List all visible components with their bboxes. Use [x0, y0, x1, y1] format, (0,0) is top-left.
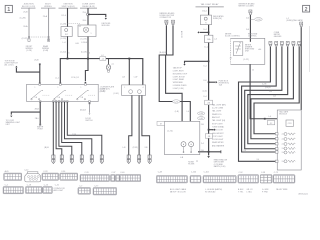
svg-text:WIRING: WIRING — [44, 6, 52, 8]
bundle wire 4 — [62, 102, 82, 156]
bundle wire 6 — [67, 102, 102, 156]
label (B-0)2-B — [159, 52, 167, 54]
svg-text:CONNECTOR: CONNECTOR — [160, 17, 172, 19]
svg-text:C-58: C-58 — [261, 172, 265, 174]
legend C-41 note — [54, 185, 66, 192]
svg-text:REAR WIPER: REAR WIPER — [212, 141, 224, 144]
svg-text:FUSE [14]: FUSE [14] — [213, 18, 222, 20]
svg-text:STOP LIGHT: STOP LIGHT — [212, 136, 224, 138]
svg-text:C-4: C-4 — [5, 185, 8, 187]
label D-4b — [204, 96, 207, 98]
wire from box to earth pin — [39, 102, 41, 124]
legend C-18 — [26, 185, 43, 194]
svg-text:(C-58): (C-58) — [81, 52, 87, 54]
svg-text:C-30: C-30 — [61, 171, 65, 173]
svg-text:25-B: 25-B — [23, 11, 28, 13]
label 29-A — [43, 15, 48, 18]
svg-text:HIGH MOUNT: HIGH MOUNT — [212, 133, 224, 135]
label A meter out — [252, 69, 254, 72]
page edge faint line — [309, 26, 311, 72]
module pin 6 — [275, 160, 278, 162]
module lamp 3 — [282, 143, 296, 146]
label g — [296, 44, 297, 46]
svg-text:ROOM LIGHT: ROOM LIGHT — [212, 139, 224, 141]
svg-text:(B-0)-B: (B-0)-B — [80, 110, 87, 112]
label C-74 in wiper box — [167, 131, 173, 133]
cascade wire 2 — [242, 47, 278, 153]
switch box exit nubs — [39, 101, 41, 103]
interconnect dashed wire — [28, 36, 49, 38]
svg-text:(C-48): (C-48) — [43, 50, 49, 52]
label D1-4 — [62, 15, 67, 17]
svg-text:(C-74): (C-74) — [167, 131, 173, 133]
branch left at 32.4 — [197, 31, 209, 33]
connector label column A — [21, 4, 36, 9]
connector block text under W2 — [42, 45, 50, 52]
svg-text:C-7: C-7 — [79, 186, 82, 188]
svg-text:REAR FOG: REAR FOG — [212, 113, 222, 116]
rear wiper motor box — [165, 121, 200, 154]
branch wire to right arrow — [88, 14, 106, 17]
svg-text:(C-40): (C-40) — [100, 91, 105, 93]
svg-text:(C-37): (C-37) — [81, 38, 87, 40]
bundle wire 3 — [59, 102, 72, 156]
svg-text:C-48: C-48 — [158, 172, 162, 174]
svg-text:1: 1 — [81, 87, 82, 89]
svg-text:L: BLU: L: BLU — [247, 192, 253, 194]
label D6-4 — [202, 11, 207, 13]
oval label C-82 — [198, 117, 205, 120]
bus label J-2 box — [100, 57, 106, 61]
destination list column — [212, 103, 226, 147]
trunk junction arrow right at 129.7 — [208, 129, 216, 131]
svg-text:D-6: D-6 — [246, 29, 249, 31]
svg-text:WIPER AND: WIPER AND — [173, 81, 184, 84]
svg-text:2-4: 2-4 — [201, 143, 204, 145]
cascade wire 3 — [245, 47, 282, 149]
legend C-52 — [238, 172, 259, 183]
label C-75 oval — [172, 100, 180, 104]
svg-text:GAUGES: GAUGES — [274, 35, 282, 38]
svg-text:C-22: C-22 — [24, 169, 28, 171]
legend C-30 — [60, 171, 78, 180]
svg-text:C-75: C-75 — [274, 172, 278, 174]
legend code text 6 — [276, 189, 288, 191]
washer out wire mid — [138, 95, 140, 155]
svg-text:2-4: 2-4 — [257, 159, 260, 161]
tail wires down — [159, 25, 190, 121]
tail light connector text — [160, 12, 176, 19]
legend C-75 — [273, 172, 295, 183]
wire bus to washer left pin — [128, 59, 130, 85]
label C-90 oval tap — [250, 18, 262, 22]
legend C-4 — [3, 185, 23, 194]
svg-text:(C-28): (C-28) — [60, 38, 66, 40]
meter pin 4 — [286, 42, 289, 46]
svg-text:D-4: D-4 — [246, 18, 249, 20]
svg-text:POINT: POINT — [37, 128, 43, 130]
label C-28 below relay — [60, 38, 66, 40]
L-2 wire — [300, 27, 302, 110]
svg-text:1: 1 — [35, 87, 36, 89]
bundle terminal pin 6 — [100, 155, 103, 164]
branch destination text — [102, 23, 111, 27]
meter pin 5 — [292, 42, 295, 46]
comb meter box — [230, 38, 265, 64]
bus wire horizontal — [60, 59, 143, 85]
legend code text 4 — [247, 189, 254, 193]
meter pin 6 — [298, 42, 301, 46]
meter header text 1 — [225, 34, 240, 38]
switch box labels right — [100, 89, 106, 94]
washer out wire left — [129, 95, 132, 155]
branch left arrow — [11, 112, 40, 115]
feed pin — [249, 10, 252, 14]
label C-28 dashed tap — [60, 23, 81, 28]
washer pin labels — [123, 147, 149, 149]
svg-text:A92X-04-11: A92X-04-11 — [299, 193, 308, 196]
oval label C-80 — [198, 112, 205, 115]
label B-1 left of bus corner — [56, 77, 59, 79]
switch box entry nubs — [39, 84, 41, 86]
rear washer box — [122, 85, 146, 96]
legend C-37 — [111, 172, 120, 182]
label 25-B mid — [34, 59, 39, 61]
svg-text:(B-0)2-B: (B-0)2-B — [159, 52, 167, 54]
label D-4 — [203, 29, 207, 31]
label L-W washer right — [134, 77, 138, 79]
tail pin A — [165, 20, 168, 24]
svg-text:AND WASHER: AND WASHER — [212, 144, 225, 147]
svg-text:C-77: C-77 — [94, 186, 98, 188]
svg-text:AND LIGHT: AND LIGHT — [54, 189, 64, 192]
svg-text:TAIL LIGHT [RH]: TAIL LIGHT [RH] — [212, 103, 226, 106]
legend C-74 — [78, 186, 91, 195]
label L-4 — [63, 42, 67, 44]
wiper box side label box — [157, 121, 165, 125]
legend C-40 — [120, 172, 141, 182]
pin line right of box — [89, 102, 91, 114]
svg-text:MODULE: MODULE — [279, 114, 287, 116]
trunk branch arrow at 61.3 — [183, 60, 209, 65]
dome light unit box — [78, 25, 96, 37]
svg-text:(2-4) B: (2-4) B — [265, 87, 271, 89]
cascade labels — [262, 83, 277, 97]
legend C-23 — [43, 185, 52, 194]
label (2-4) — [203, 90, 207, 92]
svg-text:BACK-UP: BACK-UP — [212, 116, 221, 119]
svg-text:C-80: C-80 — [199, 113, 203, 115]
svg-text:STOP LIGHT: STOP LIGHT — [212, 123, 224, 125]
svg-text:b: b — [69, 52, 70, 54]
label L-4 meter line — [269, 116, 272, 118]
svg-text:LIGHT (C-80): LIGHT (C-80) — [173, 88, 184, 90]
svg-text:1: 1 — [58, 87, 59, 89]
legend C-48 — [156, 172, 187, 183]
svg-text:MODULE: MODULE — [102, 25, 111, 27]
bundle terminal pin 1 — [52, 155, 55, 164]
svg-text:C-75: C-75 — [174, 101, 178, 103]
W2 end pin — [48, 39, 50, 41]
svg-text:(B1 LOCK): (B1 LOCK) — [5, 64, 14, 66]
tail gate module box — [277, 110, 301, 170]
washer pins — [127, 155, 130, 164]
svg-text:D-4: D-4 — [204, 66, 207, 68]
legend code text 3 — [238, 189, 244, 193]
label D-6 feed — [246, 29, 249, 31]
svg-text:2-B: 2-B — [35, 97, 37, 99]
module header — [279, 111, 289, 116]
W1 end pin — [28, 39, 30, 41]
pin line text — [85, 118, 93, 122]
svg-text:J-4: J-4 — [214, 38, 217, 40]
svg-text:LIGHT, ROOM: LIGHT, ROOM — [173, 76, 185, 78]
wire column C upper — [67, 8, 69, 27]
svg-text:TAIL LIGHT: TAIL LIGHT — [212, 110, 222, 113]
connector label column D — [80, 4, 97, 9]
svg-text:(C-28): (C-28) — [20, 18, 26, 20]
svg-text:(2-B): (2-B) — [72, 134, 77, 136]
module inner box — [286, 120, 294, 126]
svg-text:(L-1: (L-1 — [56, 77, 59, 79]
svg-text:TAIL LIGHT [LH]: TAIL LIGHT [LH] — [212, 119, 226, 122]
top room light text — [5, 60, 19, 66]
J/B box on trunk — [205, 100, 213, 105]
svg-text:METER COLUMN: METER COLUMN — [239, 6, 255, 8]
legend C-77 — [93, 186, 117, 195]
svg-text:C-52: C-52 — [239, 172, 243, 174]
door switch symbol 3 — [77, 90, 96, 100]
trunk wire relay to fuse — [208, 25, 210, 36]
label 26-A — [23, 25, 28, 28]
destinations text block — [173, 67, 188, 90]
wire W-mid — [39, 63, 41, 82]
meter out wire — [250, 64, 277, 118]
door switch symbol 1 — [31, 90, 50, 100]
svg-text:C-100: C-100 — [191, 172, 196, 174]
bundle terminal pin 3 — [70, 155, 73, 164]
feed wire down — [249, 15, 251, 42]
label B-0 — [80, 110, 87, 112]
label D-14 — [204, 46, 209, 48]
bundle terminal pin 5 — [90, 155, 93, 164]
module lamp 2 — [282, 138, 296, 141]
svg-text:29-A: 29-A — [43, 15, 48, 18]
module lamp 6 — [282, 160, 296, 163]
fuse text right — [219, 81, 230, 87]
svg-text:(C-28): (C-28) — [60, 23, 66, 25]
washer text block left — [100, 86, 115, 93]
trunk wire upper — [208, 7, 210, 15]
svg-text:C-40: C-40 — [120, 172, 124, 174]
fuse box on trunk — [205, 35, 213, 42]
svg-text:C-102: C-102 — [204, 172, 209, 174]
trunk wire long — [208, 43, 210, 152]
svg-text:ILLUM. CONTROL: ILLUM. CONTROL — [225, 36, 240, 38]
module pin 1 — [275, 133, 278, 135]
svg-text:26-A: 26-A — [23, 25, 28, 28]
svg-text:(C-22): (C-22) — [243, 59, 249, 61]
door switch symbol 2 — [54, 90, 73, 100]
tail relay box — [201, 15, 212, 25]
svg-text:4-1: 4-1 — [230, 57, 233, 59]
tail light relay title — [196, 3, 224, 7]
svg-text:C-41: C-41 — [55, 185, 59, 187]
module lamp 4 — [282, 147, 296, 150]
svg-text:SWITCH (IG1): SWITCH (IG1) — [62, 6, 75, 8]
svg-text:EARTH (C-80): EARTH (C-80) — [214, 165, 226, 168]
label J-4 right of fuse — [214, 38, 217, 40]
label C7-0 mid — [71, 77, 79, 79]
svg-text:TURN SIGNAL: TURN SIGNAL — [212, 125, 224, 128]
svg-text:2: 2 — [305, 7, 308, 13]
bus junction dot column C — [67, 58, 69, 60]
svg-text:LIGHT, REAR: LIGHT, REAR — [173, 78, 185, 81]
L-2 fuse label — [286, 18, 303, 22]
module pin 5 — [275, 151, 278, 153]
bundle wire 1 — [52, 102, 54, 156]
legend code text 2 — [205, 188, 222, 193]
module pin 4 — [275, 148, 278, 150]
svg-text:2B:GRY WIRE: 2B:GRY WIRE — [276, 189, 288, 191]
svg-text:J-1: J-1 — [79, 26, 82, 28]
wire column C lower to bus — [67, 36, 69, 58]
bottom right text block — [214, 159, 228, 168]
wire W1 — [28, 8, 30, 41]
J/C box meter line — [267, 121, 275, 125]
page code — [299, 193, 308, 196]
L-2 pin — [300, 22, 303, 26]
cascade wire 5 — [251, 47, 294, 139]
svg-text:W: GROUND: W: GROUND — [205, 192, 216, 194]
label 26-L — [82, 20, 87, 22]
cascade bottom labels — [244, 150, 260, 161]
branch text left — [6, 120, 21, 126]
label C-22 — [22, 38, 28, 40]
connector label column B — [41, 4, 56, 9]
meter header text 2 — [248, 33, 258, 38]
svg-text:CONTROL: CONTROL — [248, 36, 257, 38]
label 6-B right of column C — [76, 43, 80, 45]
switch inner labels — [35, 87, 83, 99]
label D-4 feed — [246, 18, 249, 20]
label C-58-4 — [81, 42, 88, 44]
junction ring column D — [87, 13, 90, 16]
label 25-L — [82, 12, 87, 14]
svg-text:SWITCH: SWITCH — [85, 120, 93, 122]
cascade wire 6 — [254, 47, 299, 134]
svg-text:g: g — [296, 44, 297, 46]
label L-B washer left — [122, 77, 126, 79]
svg-text:A-05: A-05 — [5, 170, 9, 173]
svg-text:4: 4 — [143, 87, 144, 89]
svg-text:(2-4): (2-4) — [203, 90, 207, 92]
label C-28 — [20, 18, 26, 20]
svg-text:BACK DOOR: BACK DOOR — [212, 129, 223, 132]
legend C-58 honeycomb — [260, 172, 272, 183]
svg-text:MOUNTED STOP: MOUNTED STOP — [173, 73, 188, 75]
legend C-28 — [42, 171, 59, 180]
trunk end arrow — [207, 152, 210, 158]
svg-text:C7-0 (C4: C7-0 (C4 — [71, 77, 79, 79]
relay K1 column C — [61, 27, 72, 37]
svg-text:2-L: 2-L — [112, 64, 115, 66]
cascade wire 1 — [239, 47, 278, 162]
svg-text:C-37: C-37 — [111, 172, 115, 174]
svg-text:TAIL LIGHT RELAY: TAIL LIGHT RELAY — [200, 3, 219, 6]
svg-text:RELAY (B-13): RELAY (B-13) — [82, 5, 95, 8]
svg-text:2B-L: 2B-L — [35, 118, 39, 120]
legend C-31 — [80, 172, 109, 182]
label D-4 mid — [204, 66, 207, 68]
svg-text:(L-B): (L-B) — [175, 111, 179, 113]
label C-15 right — [0, 0, 1, 1]
svg-text:D-6: D-6 — [204, 80, 207, 82]
label 4-B bottom — [180, 157, 184, 159]
svg-text:2-B: 2-B — [81, 97, 83, 99]
bundle wire 2 — [56, 102, 62, 156]
svg-text:(C-22): (C-22) — [22, 38, 28, 40]
svg-text:LIGHT, HIGH: LIGHT, HIGH — [173, 71, 184, 73]
page number box 1 — [5, 5, 12, 13]
legend code text 1 — [170, 188, 187, 193]
svg-text:D-4: D-4 — [204, 96, 207, 98]
module lamp 1 — [282, 133, 296, 136]
svg-text:C-58-4: C-58-4 — [81, 42, 88, 44]
svg-text:BLOCK (C-23): BLOCK (C-23) — [22, 6, 35, 8]
top right feed text — [239, 2, 256, 7]
svg-text:(B)-B: (B)-B — [44, 147, 49, 149]
branch to top room light text — [16, 68, 39, 72]
label C-37 under dome box — [81, 38, 87, 40]
legend A-05 — [4, 170, 22, 180]
svg-text:Y: YEL: Y: YEL — [238, 192, 243, 194]
bus junction dot washer — [128, 58, 130, 60]
label 2-L fan — [72, 134, 77, 136]
comb meter title — [274, 32, 282, 38]
label L-2 above bus — [101, 55, 104, 57]
svg-text:C-18: C-18 — [27, 185, 31, 187]
label 2-B low — [201, 150, 205, 152]
svg-text:b: b — [89, 52, 90, 54]
bus junction dot column D — [87, 58, 89, 60]
legend C-22 connector drawing — [24, 169, 41, 182]
label 2B-L — [35, 118, 39, 120]
cascade wire 4 — [248, 47, 288, 144]
svg-text:A22X-01: A22X-01 — [180, 31, 183, 38]
svg-text:(C-28): (C-28) — [26, 50, 32, 52]
meter pin 2 — [275, 42, 278, 46]
dome bulb on bus — [106, 59, 114, 73]
J/B box 2 on trunk — [205, 134, 212, 138]
wire column D upper — [87, 8, 89, 25]
module lamp 5 — [282, 151, 296, 154]
module pin 2 — [275, 138, 278, 140]
svg-text:(FUSE) [TAIL GATE]: (FUSE) [TAIL GATE] — [286, 19, 303, 22]
meter pin 1 — [269, 42, 272, 46]
svg-text:C-82: C-82 — [199, 118, 203, 120]
svg-text:P: PNK: P: PNK — [262, 192, 269, 194]
svg-text:2-4: 2-4 — [244, 150, 247, 152]
svg-text:2-B: 2-B — [58, 97, 60, 99]
bundle wire 5 — [65, 102, 92, 156]
label D-6 mid — [204, 80, 207, 82]
svg-text:25-B: 25-B — [34, 59, 39, 61]
wiper input labels — [175, 111, 189, 113]
meter pin 3 — [280, 42, 283, 46]
earth pin symbol — [39, 124, 41, 126]
svg-text:2B-B: 2B-B — [35, 108, 40, 110]
